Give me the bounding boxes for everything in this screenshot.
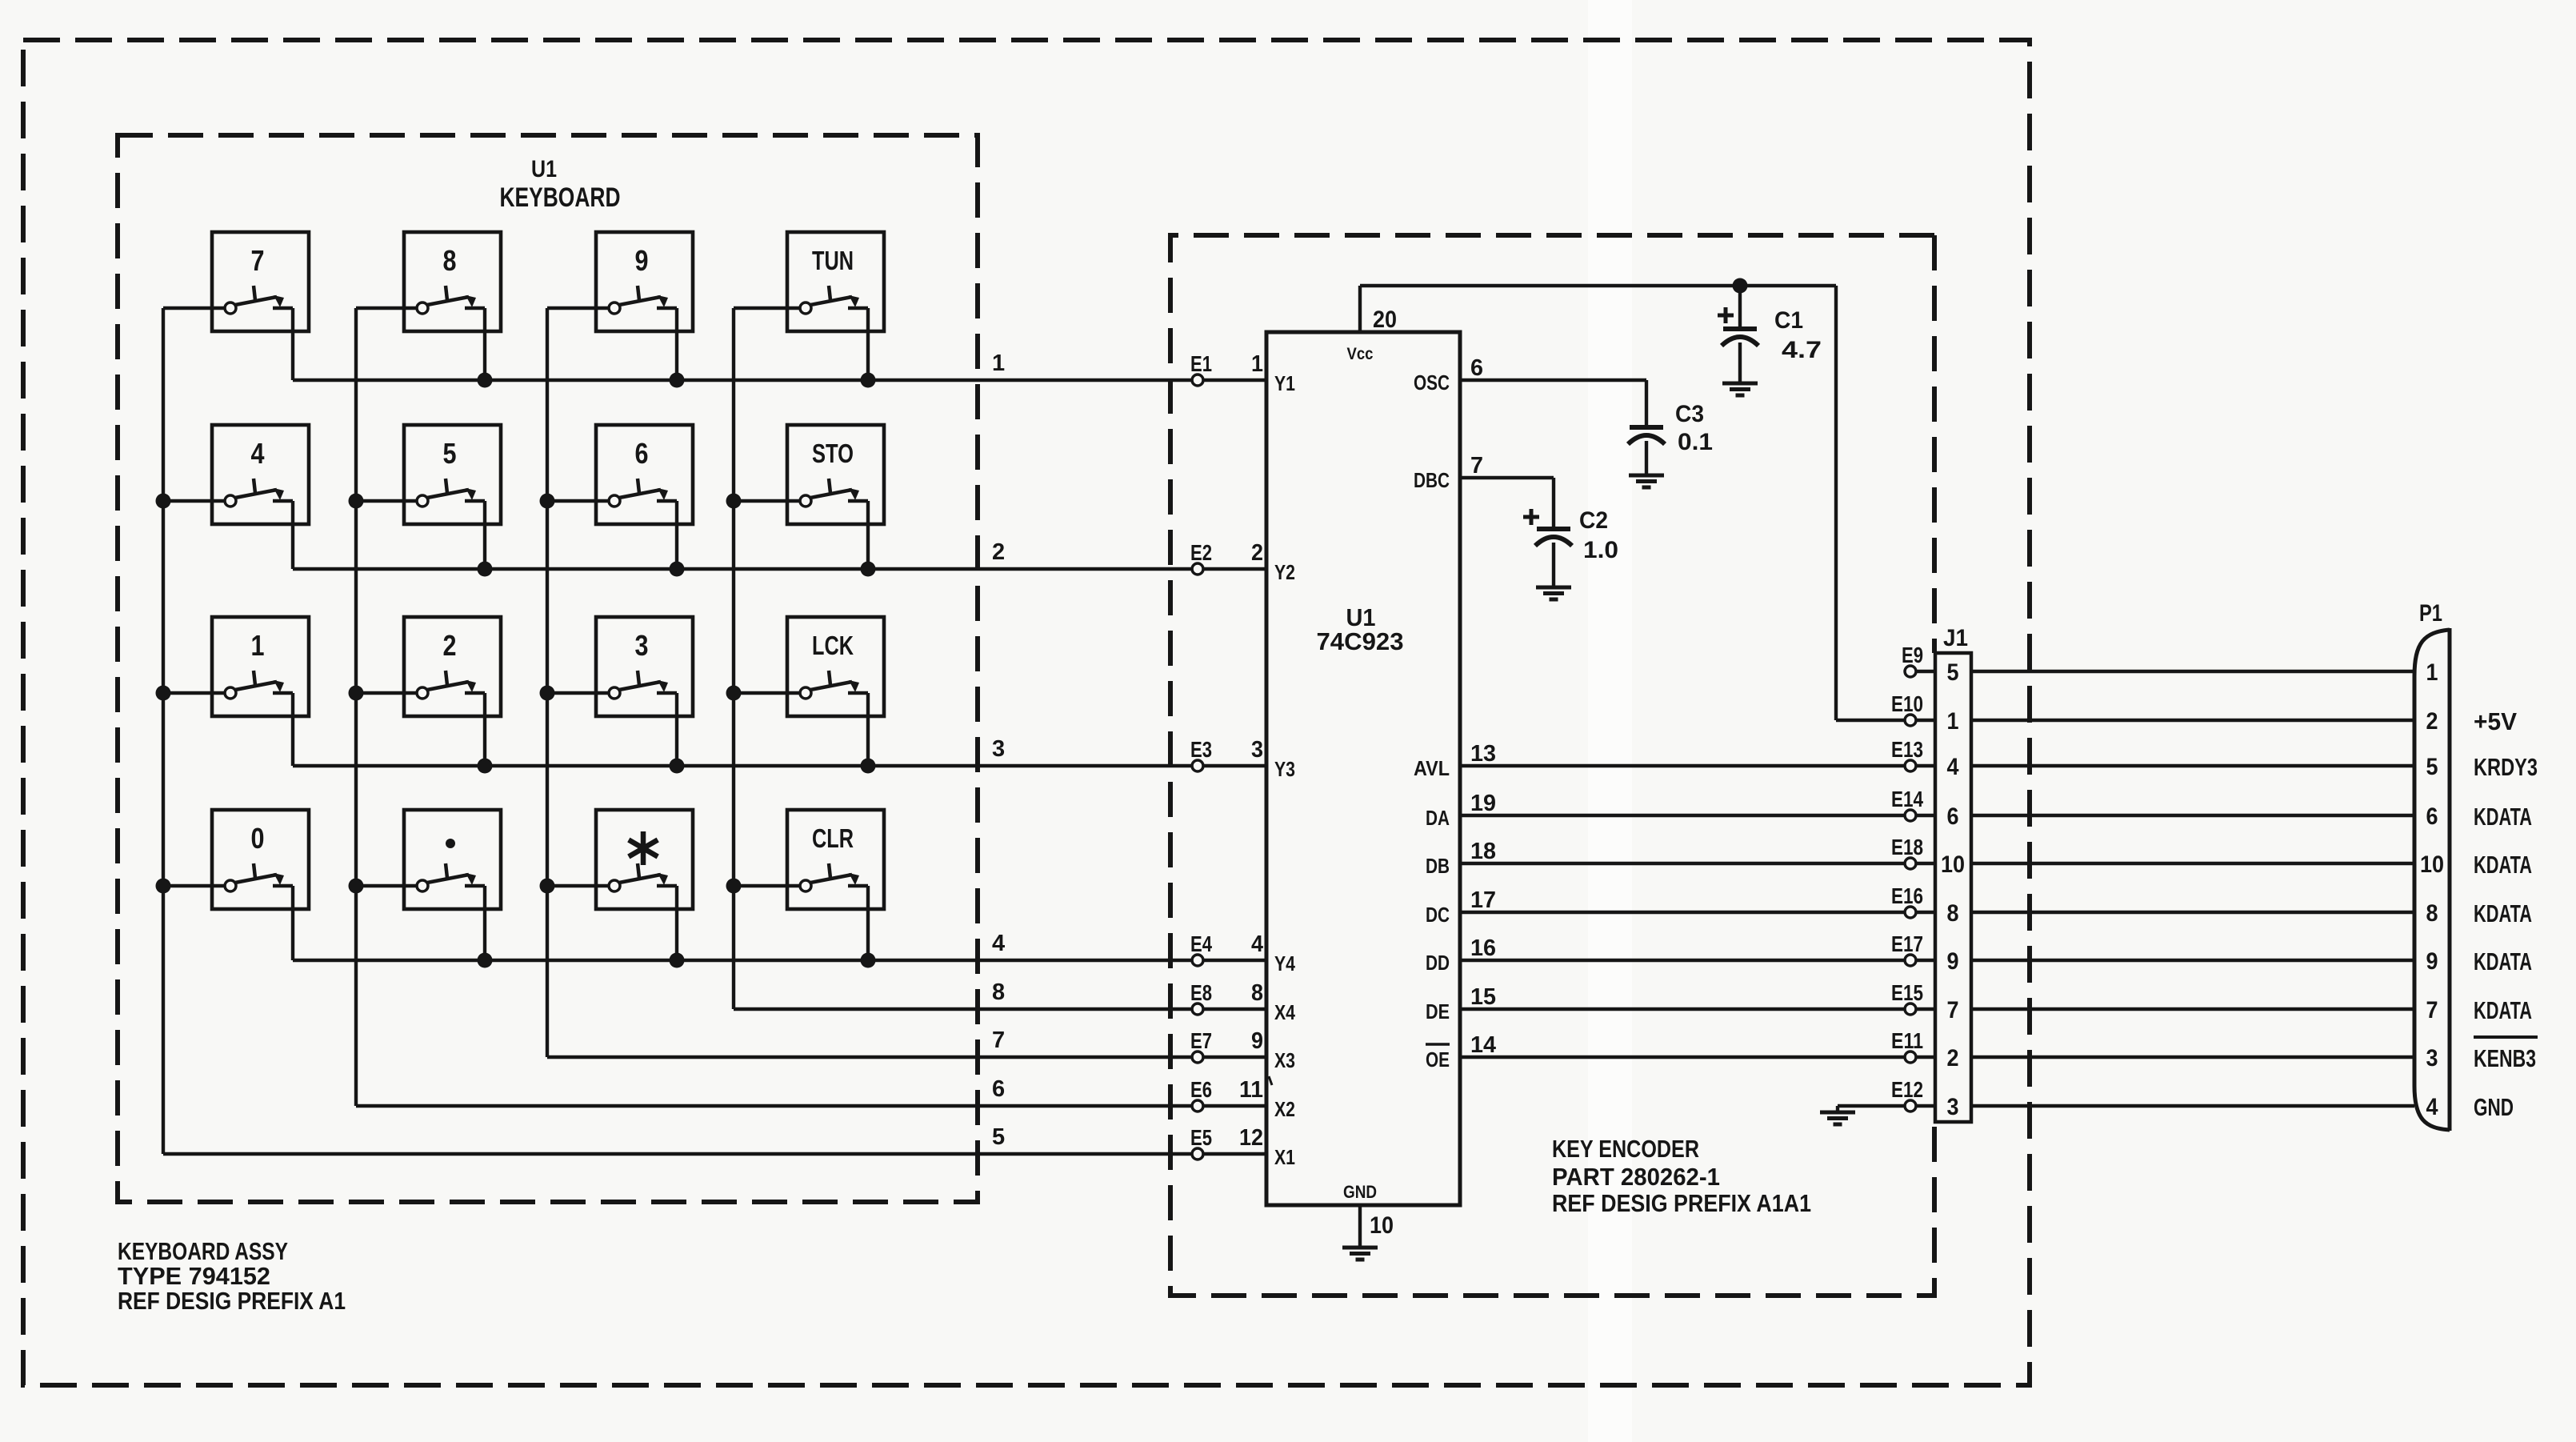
svg-text:E11: E11	[1891, 1028, 1923, 1053]
svg-text:GND: GND	[1343, 1182, 1377, 1202]
svg-text:LCK: LCK	[812, 631, 854, 660]
svg-text:E15: E15	[1891, 980, 1923, 1005]
key encoder dashed box	[1170, 235, 1934, 1296]
svg-text:Y1: Y1	[1274, 371, 1295, 395]
svg-text:3: 3	[1251, 737, 1263, 763]
svg-text:DD: DD	[1426, 951, 1450, 975]
svg-text:4: 4	[251, 437, 265, 470]
terminal E14	[1905, 810, 1916, 821]
svg-text:8: 8	[443, 244, 457, 277]
terminal E4	[1192, 955, 1203, 966]
junction col 1 / row 3 feed	[156, 686, 171, 701]
capacitor C1 4.7	[1718, 286, 1822, 383]
terminal E13	[1905, 760, 1916, 771]
terminal E9	[1915, 670, 1935, 673]
svg-text:C2: C2	[1579, 507, 1608, 534]
svg-text:14: 14	[1470, 1032, 1496, 1058]
keyboard U1 dashed box	[118, 135, 978, 1202]
key switch "0" (row 4, col 1)	[163, 810, 309, 960]
svg-text:10: 10	[1370, 1212, 1394, 1239]
IC U1 74C923 body	[1266, 332, 1460, 1205]
svg-text:E1: E1	[1190, 351, 1212, 376]
svg-text:9: 9	[1947, 948, 1959, 975]
svg-text:KRDY3: KRDY3	[2474, 753, 2538, 781]
svg-text:DA: DA	[1426, 806, 1450, 830]
junction row 1 bus / key drop	[670, 373, 685, 388]
svg-text:18: 18	[1470, 839, 1496, 864]
svg-text:PART 280262-1: PART 280262-1	[1552, 1163, 1720, 1191]
svg-text:KDATA: KDATA	[2474, 899, 2532, 927]
wire: keyboard column 1 bus down to X1 row	[162, 308, 165, 1154]
svg-text:STO: STO	[812, 439, 854, 468]
wire E12 to ground	[1838, 1104, 1906, 1108]
svg-text:E9: E9	[1902, 643, 1923, 667]
terminal E6	[1192, 1100, 1203, 1112]
wire DD to E17	[1460, 959, 1906, 962]
svg-text:7: 7	[251, 244, 265, 277]
svg-text:2: 2	[1251, 540, 1263, 566]
key switch "2" (row 3, col 2)	[356, 617, 501, 766]
svg-text:8: 8	[1947, 900, 1959, 927]
wire J1 to P1	[1971, 1055, 2414, 1059]
capacitor C3 0.1	[1628, 401, 1713, 475]
svg-text:DB: DB	[1426, 854, 1450, 878]
svg-text:6: 6	[635, 437, 649, 470]
ground (C3)	[1629, 474, 1664, 478]
svg-text:12: 12	[1239, 1125, 1263, 1151]
junction row 2 bus / key drop	[478, 562, 493, 577]
svg-text:1: 1	[251, 629, 265, 662]
svg-text:8: 8	[992, 979, 1005, 1005]
svg-text:E17: E17	[1891, 931, 1923, 956]
ground (C1)	[1722, 382, 1758, 386]
wire: keyboard column 4 bus down to X4 row	[732, 308, 735, 1009]
svg-text:2: 2	[2426, 708, 2438, 735]
key switch "TUN" (row 1, col 4)	[734, 232, 884, 380]
junction col 4 / row 2 feed	[726, 494, 742, 509]
key switch "STO" (row 2, col 4)	[734, 425, 884, 569]
wire J1 to P1	[1971, 1104, 2414, 1108]
svg-text:4: 4	[992, 931, 1005, 956]
junction row 2 bus / key drop	[861, 562, 876, 577]
svg-text:7: 7	[1947, 997, 1959, 1023]
svg-text:0: 0	[251, 822, 265, 855]
svg-text:E7: E7	[1190, 1028, 1212, 1053]
svg-text:Vcc: Vcc	[1347, 345, 1374, 363]
svg-text:OSC: OSC	[1414, 371, 1450, 395]
wire Vcc pin 20	[1358, 286, 1362, 332]
junction row 4 bus / key drop	[861, 953, 876, 968]
svg-text:X4: X4	[1274, 1000, 1295, 1024]
svg-text:4: 4	[1251, 931, 1263, 957]
svg-text:DC: DC	[1426, 903, 1450, 927]
junction col 3 / row 4 feed	[540, 879, 555, 894]
junction row 3 bus / key drop	[670, 759, 685, 774]
wire: keyboard column 3 bus down to X3 row	[546, 308, 549, 1057]
connector J1	[1935, 653, 1971, 1122]
key switch "7" (row 1, col 1)	[163, 232, 309, 380]
ground (IC GND)	[1342, 1246, 1378, 1250]
svg-text:+5V: +5V	[2474, 707, 2517, 735]
wire: keyboard row 1 bus to Y1	[293, 379, 1266, 382]
svg-text:4: 4	[2426, 1094, 2438, 1120]
svg-text:1.0: 1.0	[1583, 537, 1618, 563]
wire DB to E18	[1460, 862, 1906, 865]
wire J1 to P1	[1971, 862, 2414, 865]
svg-text:74C923: 74C923	[1317, 627, 1404, 655]
svg-text:KENB3: KENB3	[2474, 1044, 2536, 1072]
terminal E18	[1905, 858, 1916, 869]
key switch "LCK" (row 3, col 4)	[734, 617, 884, 766]
svg-text:1: 1	[2426, 659, 2438, 686]
svg-text:6: 6	[1947, 803, 1959, 830]
wire: keyboard row 4 bus to Y4	[293, 959, 1266, 962]
svg-text:E13: E13	[1891, 737, 1923, 762]
svg-text:OE: OE	[1426, 1047, 1450, 1071]
wire OE to E11	[1460, 1055, 1906, 1059]
key switch "9" (row 1, col 3)	[547, 232, 693, 380]
key switch "5" (row 2, col 2)	[356, 425, 501, 569]
terminal E8	[1192, 1003, 1203, 1015]
key switch "dot" (row 4, col 2)	[356, 810, 501, 960]
svg-text:3: 3	[1947, 1094, 1959, 1120]
OE overline	[1426, 1043, 1450, 1046]
terminal E5	[1192, 1148, 1203, 1160]
svg-text:13: 13	[1470, 741, 1496, 767]
stray tick near pin 11	[1269, 1076, 1272, 1085]
terminal E16	[1905, 907, 1916, 918]
svg-text:TUN: TUN	[812, 246, 854, 275]
svg-text:REF DESIG PREFIX A1A1: REF DESIG PREFIX A1A1	[1552, 1189, 1811, 1217]
svg-text:2: 2	[443, 629, 457, 662]
wire DC to E16	[1460, 911, 1906, 914]
junction Vcc / C1	[1733, 278, 1748, 294]
svg-text:KDATA: KDATA	[2474, 851, 2532, 879]
svg-text:Y2: Y2	[1274, 560, 1295, 584]
svg-text:CLR: CLR	[812, 823, 854, 853]
svg-text:11: 11	[1239, 1077, 1263, 1103]
key switch "CLR" (row 4, col 4)	[734, 810, 884, 960]
outer assembly dashed border	[23, 40, 2030, 1385]
junction col 1 / row 2 feed	[156, 494, 171, 509]
svg-text:7: 7	[2426, 997, 2438, 1023]
svg-text:TYPE 794152: TYPE 794152	[118, 1262, 270, 1290]
wire J1 to P1	[1971, 764, 2414, 767]
svg-text:DE: DE	[1426, 999, 1450, 1023]
terminal E3	[1192, 760, 1203, 771]
svg-text:5: 5	[992, 1124, 1005, 1150]
wire DE to E15	[1460, 1007, 1906, 1011]
svg-text:KEY ENCODER: KEY ENCODER	[1552, 1135, 1699, 1163]
svg-text:X2: X2	[1274, 1097, 1295, 1121]
svg-text:7: 7	[1470, 453, 1483, 479]
svg-text:6: 6	[992, 1076, 1005, 1102]
svg-text:X3: X3	[1274, 1048, 1295, 1072]
svg-text:5: 5	[443, 437, 457, 470]
svg-text:4: 4	[1947, 754, 1959, 780]
svg-text:C1: C1	[1774, 307, 1803, 334]
svg-text:7: 7	[992, 1027, 1005, 1053]
svg-text:0.1: 0.1	[1678, 429, 1713, 455]
junction col 1 / row 4 feed	[156, 879, 171, 894]
svg-text:E3: E3	[1190, 737, 1212, 762]
junction col 3 / row 3 feed	[540, 686, 555, 701]
wire: keyboard row 2 bus to Y2	[293, 567, 1266, 571]
svg-text:8: 8	[1251, 980, 1263, 1006]
svg-text:Y4: Y4	[1274, 951, 1295, 975]
svg-text:6: 6	[1470, 355, 1483, 381]
svg-text:5: 5	[2426, 754, 2438, 780]
svg-text:3: 3	[992, 736, 1005, 762]
svg-text:KDATA: KDATA	[2474, 803, 2532, 831]
svg-text:REF DESIG PREFIX A1: REF DESIG PREFIX A1	[118, 1287, 346, 1315]
svg-text:GND: GND	[2474, 1093, 2514, 1121]
svg-text:1: 1	[992, 350, 1005, 376]
svg-text:9: 9	[2426, 948, 2438, 975]
junction row 4 bus / key drop	[670, 953, 685, 968]
svg-text:E6: E6	[1190, 1077, 1212, 1102]
svg-text:E4: E4	[1190, 931, 1212, 956]
terminal E1	[1192, 375, 1203, 386]
svg-text:Y3: Y3	[1274, 757, 1295, 781]
svg-text:KEYBOARD ASSY: KEYBOARD ASSY	[118, 1237, 288, 1265]
svg-text:20: 20	[1373, 306, 1397, 333]
key switch "4" (row 2, col 1)	[163, 425, 309, 569]
wire J1 to P1	[1971, 719, 2414, 722]
terminal E11	[1905, 1051, 1916, 1063]
junction row 3 bus / key drop	[861, 759, 876, 774]
junction row 3 bus / key drop	[478, 759, 493, 774]
terminal E7	[1192, 1051, 1203, 1063]
svg-text:AVL: AVL	[1414, 756, 1450, 780]
junction col 2 / row 2 feed	[349, 494, 364, 509]
svg-text:E12: E12	[1891, 1077, 1923, 1102]
terminal E2	[1192, 563, 1203, 575]
svg-text:X1: X1	[1274, 1145, 1295, 1169]
ground (C2)	[1536, 586, 1571, 590]
svg-text:KDATA: KDATA	[2474, 996, 2532, 1024]
svg-text:1: 1	[1251, 351, 1263, 377]
svg-text:2: 2	[992, 539, 1005, 565]
svg-text:C3: C3	[1675, 401, 1704, 427]
junction col 4 / row 3 feed	[726, 686, 742, 701]
key switch "6" (row 2, col 3)	[547, 425, 693, 569]
svg-text:17: 17	[1470, 887, 1496, 913]
svg-text:E14: E14	[1891, 787, 1923, 811]
junction col 2 / row 4 feed	[349, 879, 364, 894]
svg-text:16: 16	[1470, 935, 1496, 961]
svg-text:J1: J1	[1943, 625, 1968, 651]
wire J1 to P1	[1971, 959, 2414, 962]
svg-text:E18: E18	[1891, 835, 1923, 859]
junction row 4 bus / key drop	[478, 953, 493, 968]
junction col 3 / row 2 feed	[540, 494, 555, 509]
wire +5V net to E10	[1836, 719, 1906, 722]
key switch "1" (row 3, col 1)	[163, 617, 309, 766]
svg-text:10: 10	[1941, 851, 1965, 878]
svg-text:19: 19	[1470, 791, 1496, 816]
terminal E15	[1905, 1003, 1916, 1015]
svg-text:E2: E2	[1190, 540, 1212, 565]
wire AVL to E13	[1460, 764, 1906, 767]
svg-text:U1: U1	[531, 156, 557, 182]
wire: keyboard column 2 bus down to X2 row	[354, 308, 358, 1106]
svg-text:3: 3	[2426, 1045, 2438, 1071]
svg-text:E16: E16	[1891, 883, 1923, 908]
svg-text:10: 10	[2420, 851, 2444, 878]
wire: keyboard row 3 bus to Y3	[293, 764, 1266, 767]
wire OSC pin 6	[1460, 379, 1646, 382]
svg-text:6: 6	[2426, 803, 2438, 830]
key switch "3" (row 3, col 3)	[547, 617, 693, 766]
svg-text:E8: E8	[1190, 980, 1212, 1005]
svg-text:1: 1	[1947, 708, 1959, 735]
junction row 2 bus / key drop	[670, 562, 685, 577]
svg-text:KEYBOARD: KEYBOARD	[500, 182, 621, 213]
junction col 2 / row 3 feed	[349, 686, 364, 701]
wire DBC pin 7	[1460, 476, 1554, 479]
wire J1 to P1	[1971, 1007, 2414, 1011]
svg-text:DBC: DBC	[1414, 468, 1450, 492]
terminal E17	[1905, 955, 1916, 966]
key switch "8" (row 1, col 2)	[356, 232, 501, 380]
svg-text:KDATA: KDATA	[2474, 947, 2532, 975]
KENB3 overline	[2474, 1035, 2538, 1039]
junction row 1 bus / key drop	[478, 373, 493, 388]
wire J1 to P1	[1971, 814, 2414, 817]
capacitor C2 1.0	[1523, 507, 1618, 587]
wire J1 to P1	[1971, 911, 2414, 914]
svg-text:5: 5	[1947, 659, 1959, 686]
junction col 4 / row 4 feed	[726, 879, 742, 894]
svg-text:P1: P1	[2419, 600, 2442, 627]
svg-text:E10: E10	[1891, 691, 1923, 716]
svg-text:2: 2	[1947, 1045, 1959, 1071]
svg-text:E5: E5	[1190, 1125, 1212, 1150]
svg-text:4.7: 4.7	[1782, 337, 1822, 363]
ground (E12)	[1820, 1111, 1855, 1115]
terminal E10	[1905, 715, 1916, 726]
terminal E12	[1905, 1100, 1916, 1112]
svg-text:9: 9	[635, 244, 649, 277]
wire DA to E14	[1460, 814, 1906, 817]
svg-text:8: 8	[2426, 900, 2438, 927]
svg-text:9: 9	[1251, 1028, 1263, 1054]
key switch "asterisk" (row 4, col 3)	[547, 810, 693, 960]
svg-text:15: 15	[1470, 984, 1496, 1010]
wire GND pin 10	[1358, 1205, 1362, 1248]
svg-text:3: 3	[635, 629, 649, 662]
wire J1 to P1	[1971, 670, 2414, 673]
connector P1	[2414, 630, 2450, 1130]
junction row 1 bus / key drop	[861, 373, 876, 388]
